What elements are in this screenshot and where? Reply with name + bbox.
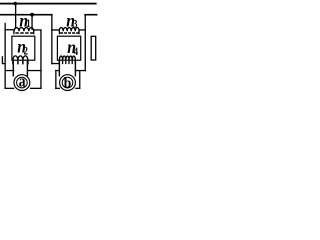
wire: left outer wire of left unit (free stub top, down to lamp a) xyxy=(5,23,6,89)
wire: bottom horizontal right to lamp b xyxy=(75,88,80,89)
wire: lamp b right drop from jog bar down xyxy=(79,71,80,89)
node: junction dot on rail 2 xyxy=(30,13,34,17)
svg-text:1: 1 xyxy=(26,18,30,30)
coil n2 core dashes below box xyxy=(13,61,28,65)
box: small rectangle at far right xyxy=(91,36,96,60)
wire: jog bar right piece of lamp a xyxy=(27,70,42,71)
coil n2 winding arcs on box bottom xyxy=(13,56,28,60)
coil n1 end legs xyxy=(14,31,34,34)
svg-text:3: 3 xyxy=(73,18,77,30)
lamp b outer circle xyxy=(60,75,76,91)
box: core of transformer 1 xyxy=(12,36,35,60)
coil n1 core dashes xyxy=(15,32,33,34)
wire: small L stub on far left xyxy=(2,56,5,63)
coil n1 winding arcs xyxy=(14,28,34,32)
svg-text:a: a xyxy=(19,73,26,91)
wire: vertical from rail2 dot to coil n1 right xyxy=(31,15,32,30)
wire: horizontal from rail2 drop to coil n3 left terminal xyxy=(51,29,59,30)
wire: supply rail 2 left section xyxy=(0,14,53,16)
coil n4 core dashes below box xyxy=(59,61,75,64)
lamp b inner circle xyxy=(62,77,73,88)
wire: horizontal from left outer wire to coil n1 left terminal xyxy=(5,29,15,30)
wire: bottom horizontal left to lamp a xyxy=(5,88,15,89)
lamp a outer circle xyxy=(14,75,30,91)
wire: top supply rail 1 xyxy=(0,3,97,5)
wire: horizontal rail2-corner to secondary lead (y64) xyxy=(51,63,59,64)
wire: bottom horizontal left to lamp b xyxy=(55,88,60,89)
wire: bottom horizontal right to lamp a xyxy=(30,88,42,89)
coil n3 core dashes xyxy=(60,32,79,34)
coil n4 winding arcs on box bottom xyxy=(59,56,75,60)
svg-text:b: b xyxy=(64,75,72,92)
lamp a inner circle xyxy=(17,77,28,88)
wire: rail2 corner down to coil n3 left xyxy=(51,15,52,64)
wire: supply rail 2 right section xyxy=(84,14,97,16)
wire: lamp-a right outer wire xyxy=(40,30,41,89)
wire: vertical from rail1 dot to coil n1 left xyxy=(15,4,16,29)
wire: secondary n4 right lead down xyxy=(75,60,76,76)
wire: secondary n2 left lead down xyxy=(13,60,14,76)
node: junction dot on rail 1 xyxy=(14,2,18,6)
wire: jog bar right piece of lamp b xyxy=(75,70,86,71)
box: core of transformer 2 xyxy=(57,36,80,60)
wire: jog bar left piece of lamp a xyxy=(5,70,15,71)
wire: secondary n4 left lead down xyxy=(59,60,60,76)
wire: secondary n2 right lead down xyxy=(27,60,28,76)
wire: horizontal from coil n1 right to lamp-a right wire xyxy=(33,29,42,30)
wire: jog bar left piece of lamp b xyxy=(55,70,60,71)
coil n3 winding arcs xyxy=(59,28,79,32)
coil n3 end legs xyxy=(59,31,79,34)
wire: right outer wire of right unit (from segB down to lamp b) xyxy=(85,15,86,71)
wire: horizontal coil n3 right to right drop xyxy=(79,29,85,30)
wire: lamp b left wire down xyxy=(55,70,56,89)
